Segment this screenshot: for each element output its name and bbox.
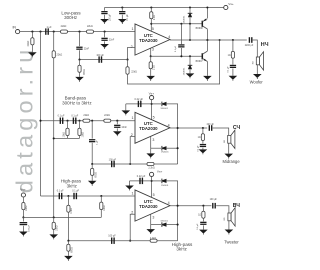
wire pin5 node to D5: [152, 180, 161, 182]
wire pin 3: [150, 48, 152, 56]
svg-text:1N4001: 1N4001: [160, 108, 168, 110]
capacitor C23 zobel: [200, 222, 206, 225]
resistor R1 input load: [31, 38, 34, 45]
svg-text:300Hz to 3kHz: 300Hz to 3kHz: [62, 101, 92, 106]
speaker tweeter: [228, 208, 235, 226]
wire: [189, 8, 191, 14]
svg-text:Vs+: Vs+: [228, 2, 234, 6]
svg-text:1: 1: [132, 116, 134, 120]
wire C6 lower: [180, 48, 182, 56]
resistor R23 zobel: [202, 211, 205, 218]
wire feedback ch3 left: [68, 240, 150, 242]
ground midrange: [224, 154, 233, 159]
capacitor C13: [114, 125, 120, 128]
resistor R20 bias lower: [52, 222, 55, 229]
svg-text:100 µF: 100 µF: [110, 13, 112, 21]
node Vref bias vertical: [53, 216, 55, 218]
svg-text:2.2kΩ: 2.2kΩ: [148, 167, 155, 170]
ground C5: [118, 19, 127, 24]
wire pin5 node to D3: [152, 103, 161, 105]
svg-text:datagor.ru: datagor.ru: [11, 45, 37, 193]
diode D3 1N4001: [162, 102, 167, 107]
node ch3 J1: [67, 195, 69, 197]
svg-text:IN: IN: [12, 26, 16, 30]
svg-text:3kHz: 3kHz: [67, 183, 78, 188]
wire pin3 to D4: [151, 147, 161, 149]
svg-text:1N4001: 1N4001: [184, 15, 186, 23]
wire output rail ch2: [170, 127, 207, 129]
ground Q2: [203, 76, 212, 81]
svg-text:10kΩ: 10kΩ: [104, 205, 106, 211]
svg-text:1N4001: 1N4001: [184, 67, 186, 75]
wire: [150, 148, 152, 153]
wire: [232, 58, 234, 64]
wire: [67, 241, 69, 245]
capacitor C11 0.1uF: [60, 118, 64, 124]
ground R7: [75, 77, 84, 82]
svg-text:8Ω: 8Ω: [224, 140, 226, 143]
svg-text:220 µF: 220 µF: [207, 124, 215, 126]
node zobel ch1: [232, 39, 234, 41]
resistor R6 supply pin 3: [149, 62, 152, 69]
wire: [104, 32, 106, 38]
wire: [79, 136, 81, 139]
wire: [189, 17, 191, 24]
diode D4 1N4001: [162, 146, 167, 151]
node C6 top: [180, 23, 182, 25]
ground C21: [19, 232, 28, 237]
node rail Q1: [206, 6, 208, 8]
svg-text:0.1 µF: 0.1 µF: [72, 190, 79, 193]
node N1: [78, 59, 80, 61]
capacitor C3: [101, 38, 107, 41]
section label High-pass 2: [172, 242, 193, 252]
resistor R5 supply pin 5: [150, 12, 153, 19]
wire: [104, 41, 106, 44]
resistor R21 feedback: [150, 239, 157, 242]
capacitor C14: [89, 139, 95, 142]
svg-text:2200 µF: 2200 µF: [245, 45, 254, 47]
node N2: [91, 163, 93, 165]
node zobel ch2: [202, 127, 204, 129]
svg-text:100 µF: 100 µF: [29, 224, 31, 232]
node input junction: [31, 31, 33, 33]
wire: [202, 141, 204, 144]
svg-text:10kΩ: 10kΩ: [64, 132, 66, 138]
wire Q2 emitter to ground: [206, 62, 208, 76]
capacitor C16 zobel: [200, 144, 206, 147]
svg-text:TDA2030: TDA2030: [139, 38, 158, 43]
svg-text:4: 4: [168, 35, 170, 39]
wire: [91, 164, 93, 168]
node pin2 feedback ch3: [129, 240, 131, 242]
svg-text:10kΩ: 10kΩ: [71, 208, 73, 214]
wire: [232, 69, 234, 76]
wire: [79, 32, 81, 46]
section label Band-pass: [62, 96, 92, 106]
wire pin 2: [128, 48, 136, 60]
wire feedback ch3 right: [157, 240, 178, 242]
capacitor C4 100uF: [101, 11, 107, 14]
transistor Q1 BD908: [202, 19, 207, 29]
svg-text:5: 5: [153, 193, 155, 197]
wire Vref rail: [23, 216, 101, 218]
capacitor C20 0.1uF: [73, 193, 77, 199]
section label Low-pass 300Hz: [61, 11, 81, 20]
wire C6 upper: [180, 24, 182, 44]
node output Q2: [206, 39, 208, 41]
capacitor C5 0.1uF: [119, 11, 125, 14]
ground C3: [100, 44, 109, 49]
wire Q1 emitter to rail: [206, 8, 208, 19]
capacitor C22 100uF: [111, 238, 115, 244]
svg-text:680Ω: 680Ω: [96, 172, 98, 178]
wire: [91, 143, 93, 164]
svg-text:3: 3: [152, 47, 154, 51]
svg-text:1Ω: 1Ω: [198, 137, 201, 139]
node N3: [67, 240, 69, 242]
svg-text:10kΩ: 10kΩ: [82, 132, 84, 138]
wire: [189, 56, 191, 65]
svg-text:0.22 µF: 0.22 µF: [137, 175, 146, 178]
resistor R3: [61, 30, 68, 33]
node zobel ch3: [202, 205, 204, 207]
wire: [79, 72, 81, 77]
svg-text:680Ω: 680Ω: [84, 69, 86, 75]
node base wire top: [150, 23, 152, 25]
resistor R8 feedback: [126, 67, 129, 74]
op-amp U2 UTC TDA2030: [135, 112, 170, 143]
wire: [67, 251, 69, 256]
wire: [31, 32, 33, 38]
ground woofer: [253, 74, 262, 79]
node ch2 J1: [66, 120, 68, 122]
resistor R10: [83, 119, 90, 122]
capacitor C7 100uF: [98, 56, 102, 62]
wire to woofer: [253, 40, 258, 57]
resistor R19 bias upper: [22, 203, 25, 210]
svg-text:НЧ: НЧ: [261, 42, 269, 48]
svg-text:0.1 µF: 0.1 µF: [57, 190, 64, 193]
wire: [150, 8, 152, 12]
ground pin 3 ch2: [146, 153, 155, 158]
node D4 output vertical: [177, 147, 179, 149]
wire pin 3 ch3: [150, 214, 152, 224]
resistor R22: [67, 244, 70, 251]
svg-text:22kΩ: 22kΩ: [83, 114, 89, 117]
wire pin 3 ch2: [150, 136, 152, 148]
node rail C5: [121, 6, 123, 8]
svg-text:BD907: BD907: [196, 61, 204, 63]
node ch2 Jmid: [91, 120, 93, 122]
svg-text:22nF: 22nF: [109, 39, 115, 42]
node rail D1: [189, 6, 191, 8]
svg-text:1: 1: [132, 27, 134, 31]
wire: [104, 8, 106, 11]
ground input load: [28, 52, 37, 57]
svg-text:0.1 µF: 0.1 µF: [197, 223, 199, 230]
ground R6: [146, 76, 155, 81]
svg-text:100 µF: 100 µF: [96, 54, 104, 57]
capacitor C8 zobel: [230, 65, 236, 68]
capacitor C1 1uF: [45, 28, 49, 34]
resistor R11: [104, 119, 111, 122]
svg-text:Vs+: Vs+: [149, 91, 155, 95]
node output D1: [189, 39, 191, 41]
wire: [202, 225, 204, 229]
svg-text:4: 4: [168, 123, 170, 127]
capacitor C19 0.1uF: [59, 193, 63, 199]
capacitor C21 100uF: [20, 222, 28, 225]
wire R18 to bias: [100, 210, 102, 218]
node D1 base wire: [189, 23, 191, 25]
wire to bias lower resistor: [53, 217, 55, 222]
svg-text:8Ω: 8Ω: [224, 217, 226, 220]
node filter J1: [78, 31, 80, 33]
speaker midrange: [228, 130, 235, 148]
svg-text:5: 5: [152, 27, 154, 31]
node output vertical ch2: [177, 127, 179, 129]
svg-text:4: 4: [168, 201, 170, 205]
svg-text:0.1 µF: 0.1 µF: [197, 145, 199, 152]
wire: [91, 175, 93, 180]
wire feedback node: [80, 59, 128, 61]
ground zobel ch3: [199, 230, 208, 235]
svg-text:0.1 µF: 0.1 µF: [175, 45, 177, 52]
svg-text:1: 1: [132, 191, 134, 195]
svg-text:22kΩ: 22kΩ: [27, 40, 30, 46]
wire R17 to feedback node: [67, 212, 69, 241]
wire: [121, 8, 123, 11]
wire pin 5: [150, 19, 152, 31]
wire: [67, 121, 69, 129]
wire to C18: [130, 180, 152, 182]
wire Q1 collector to output: [206, 29, 208, 40]
wire feedback ch2 left: [92, 163, 147, 165]
wire: [150, 69, 152, 76]
resistor R15: [91, 168, 94, 175]
svg-text:0.1 µF: 0.1 µF: [127, 14, 129, 21]
wire input distribution down: [40, 32, 42, 196]
wire: [202, 128, 204, 134]
resistor R17 shunt: [67, 205, 70, 212]
ground zobel ch2: [199, 149, 208, 154]
node filter J2: [104, 31, 106, 33]
speaker woofer: [256, 52, 263, 70]
wire: [129, 181, 131, 186]
svg-text:3kHz: 3kHz: [176, 247, 187, 252]
wire: [79, 60, 81, 66]
svg-text:1N4001: 1N4001: [161, 185, 169, 187]
wire pin3 to D6: [151, 224, 161, 226]
wire to Q1 base: [151, 23, 202, 25]
wire: [189, 69, 191, 73]
terminal Vs+ ch2: [150, 96, 154, 100]
svg-text:3: 3: [152, 216, 154, 220]
terminal Vs+ ch1: [224, 5, 228, 9]
svg-text:2: 2: [131, 45, 133, 49]
svg-text:ВЧ: ВЧ: [233, 203, 241, 209]
diode D1 1N4001: [188, 13, 193, 17]
wire pin 2 ch3: [130, 214, 135, 241]
ground zobel ch1: [229, 76, 238, 81]
node output Q1: [206, 39, 208, 41]
svg-text:3: 3: [152, 138, 154, 142]
node D2 base wire: [189, 55, 191, 57]
ground C10: [122, 110, 131, 115]
svg-text:2: 2: [131, 210, 133, 214]
wire Vs+ to pin 5 ch3: [151, 177, 153, 198]
resistor R14 feedback: [147, 162, 154, 165]
wire to C10: [126, 103, 152, 105]
wire filter ch3: [41, 195, 136, 197]
svg-text:Woofer: Woofer: [250, 79, 264, 84]
wire: [31, 45, 33, 52]
wire: [202, 148, 204, 150]
wire: [91, 121, 93, 139]
node bias rail ch2: [53, 137, 55, 139]
wire bias rail down: [53, 58, 55, 218]
wire to Q2 base: [151, 55, 203, 57]
svg-text:TDA2030: TDA2030: [139, 126, 158, 131]
svg-text:10kΩ: 10kΩ: [56, 225, 58, 231]
wire shunt returns to bias: [54, 137, 80, 139]
wire: [104, 15, 106, 19]
wire: [150, 56, 152, 62]
ground C4: [100, 19, 109, 24]
wire output rail ch3: [170, 205, 211, 207]
svg-text:300Hz: 300Hz: [64, 15, 78, 20]
wire: [22, 217, 24, 221]
resistor R13 shunt: [78, 128, 81, 135]
wire D3 to output vertical ch2: [166, 104, 177, 164]
node rail pin5 resistor: [150, 6, 152, 8]
resistor R16 zobel: [201, 134, 204, 141]
wire: [79, 50, 81, 59]
capacitor C24 100uF: [212, 203, 216, 209]
wire: [127, 60, 129, 67]
svg-text:22kΩ: 22kΩ: [104, 114, 110, 117]
node ch2 J2: [78, 120, 80, 122]
node input distribution: [39, 31, 41, 33]
node output vertical ch3: [177, 205, 179, 207]
svg-text:0.1 µF: 0.1 µF: [71, 115, 78, 118]
svg-text:Tweeter: Tweeter: [224, 240, 239, 245]
wire: [166, 147, 177, 149]
wire: [67, 196, 69, 205]
svg-text:1 µF: 1 µF: [46, 26, 52, 29]
wire to midrange: [213, 128, 229, 135]
node Vref: [22, 216, 24, 218]
svg-text:22nF: 22nF: [84, 48, 90, 51]
svg-text:BD908: BD908: [196, 28, 204, 30]
resistor R12 shunt: [66, 128, 69, 135]
resistor R9 zobel: [231, 51, 234, 58]
svg-text:Midrange: Midrange: [223, 159, 241, 164]
node after C1: [53, 31, 55, 33]
node base wire bottom: [150, 55, 152, 57]
input terminal IN: [16, 30, 20, 34]
wire: [100, 196, 102, 202]
wire: [228, 221, 230, 230]
svg-text:100 µF: 100 µF: [210, 199, 218, 201]
ground C18: [125, 186, 134, 191]
wire filter ch2: [41, 120, 136, 122]
capacitor C18 0.22uF: [139, 178, 143, 184]
wire feedback ch2 right: [154, 163, 178, 165]
capacitor C17 220uF: [209, 125, 213, 131]
svg-text:2.2Ω: 2.2Ω: [153, 65, 155, 70]
wire: [53, 229, 55, 234]
svg-text:10nF: 10nF: [121, 126, 127, 129]
op-amp U3 UTC TDA2030: [135, 190, 170, 221]
wire: [79, 121, 81, 129]
svg-text:22kΩ: 22kΩ: [57, 53, 63, 56]
svg-text:1N4001: 1N4001: [160, 221, 168, 223]
wire: [22, 226, 24, 232]
resistor R18 shunt: [100, 202, 103, 209]
transistor Q2 BD907: [202, 51, 207, 61]
diode D2 1N4001: [188, 65, 193, 69]
wire Vs+ to pin 5 ch2: [151, 100, 153, 120]
svg-text:1N4001: 1N4001: [161, 152, 169, 154]
svg-text:22kΩ: 22kΩ: [61, 25, 67, 28]
node Vs+ ch3: [151, 180, 153, 182]
wire: [125, 104, 127, 111]
wire Vs+ bias: [22, 197, 24, 202]
svg-text:СЧ: СЧ: [233, 125, 241, 131]
node pin2 feedback ch2: [129, 163, 131, 165]
svg-text:100 µF: 100 µF: [109, 158, 117, 161]
wire pin 2 ch2: [130, 137, 135, 164]
svg-text:22kΩ: 22kΩ: [87, 25, 93, 28]
wire: [232, 40, 234, 51]
wire: [166, 224, 177, 226]
diode D5 1N4001: [162, 179, 167, 184]
wire to tweeter: [216, 206, 229, 213]
wire Q2 collector to output: [206, 40, 208, 51]
ground R20: [49, 234, 58, 239]
svg-text:1Ω: 1Ω: [198, 215, 201, 217]
capacitor C15 100uF: [111, 161, 115, 167]
terminal Vs+ ch3: [150, 172, 154, 176]
wire: [22, 210, 24, 218]
svg-text:2.2Ω: 2.2Ω: [154, 15, 156, 20]
resistor R7: [78, 65, 81, 72]
ground D2: [186, 73, 195, 78]
wire: [67, 136, 69, 139]
node distribution ch2: [39, 120, 41, 122]
svg-text:100 µF: 100 µF: [108, 235, 116, 238]
ground R15: [88, 181, 97, 186]
wire input to pin 1: [20, 31, 135, 33]
capacitor C10 0.22uF: [138, 101, 142, 107]
svg-text:Vs+: Vs+: [157, 169, 163, 173]
capacitor C6 0.1uF: [178, 44, 184, 47]
op-amp U1 UTC TDA2030: [135, 24, 170, 55]
wire: [150, 225, 152, 230]
svg-text:Vs+: Vs+: [20, 187, 26, 191]
svg-text:1Ω: 1Ω: [228, 55, 231, 57]
svg-text:2.2kΩ: 2.2kΩ: [150, 237, 157, 240]
ground C13: [113, 131, 122, 136]
svg-text:8Ω: 8Ω: [253, 61, 255, 64]
capacitor C12 0.1uF: [73, 118, 77, 124]
node C6 bottom: [180, 55, 182, 57]
node ch3 J2: [100, 195, 102, 197]
wire V+ rail: [105, 7, 224, 9]
svg-text:680Ω: 680Ω: [71, 247, 73, 253]
